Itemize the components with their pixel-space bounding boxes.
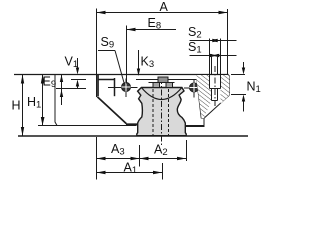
dimension V1	[76, 58, 79, 89]
block left edge	[55, 75, 57, 126]
dimension S2	[190, 39, 237, 75]
bottom dimensions A3 A2	[97, 137, 187, 180]
svg-text:H: H	[12, 99, 21, 113]
dimension K3 arrow	[137, 50, 140, 76]
dimension A	[97, 9, 228, 75]
baseline (mounting surface)	[18, 135, 248, 137]
right ball	[184, 80, 203, 98]
block underside / insert top line	[98, 79, 115, 81]
cavity ledge left	[126, 123, 138, 125]
hatching of right section: right band	[221, 75, 230, 104]
dimension E8	[127, 26, 177, 84]
dimension H	[21, 75, 24, 137]
screw hole centerline	[214, 66, 216, 106]
bottom chamfer diagonal	[204, 95, 230, 118]
rail hidden groove lines	[153, 89, 169, 135]
right block section outline	[197, 75, 230, 126]
left ball	[108, 79, 138, 98]
bottom dimension A1	[97, 163, 163, 180]
dimension N1	[231, 62, 246, 112]
right edge with rounded top corner	[227, 75, 230, 96]
rail profile	[137, 88, 186, 136]
block bottom left	[38, 125, 137, 127]
V1 reference stub line	[71, 79, 86, 81]
dimension H1	[41, 75, 45, 126]
block top line	[14, 74, 229, 76]
rail top arc	[141, 88, 182, 100]
cover strip cap	[149, 77, 175, 88]
extension line at reference edge x=96.5 (A/A3/A1)	[96, 9, 98, 98]
S9 leader	[98, 51, 125, 85]
hatching of right section: left band	[197, 75, 212, 118]
insert recess wall	[114, 78, 116, 96]
screw hole S1/S2 counterbore	[210, 75, 221, 101]
inner cavity chamfer left	[97, 97, 126, 124]
inner wall right	[197, 80, 202, 119]
dimension S1	[190, 54, 237, 75]
inner cavity wall left (thick)	[97, 75, 99, 96]
dimension E9	[56, 75, 86, 105]
lower stub	[202, 118, 205, 125]
block bottom right	[186, 125, 205, 127]
svg-text:A: A	[160, 0, 169, 14]
rail centerline	[161, 78, 163, 146]
